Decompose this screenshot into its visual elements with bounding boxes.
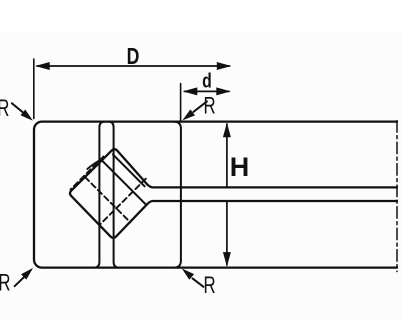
- roller body line (second solid chord): [113, 154, 145, 186]
- D dimension line: [37, 65, 230, 67]
- R1 arrowhead: [21, 110, 33, 121]
- split line v2: [108, 122, 119, 268]
- svg-text:d: d: [202, 69, 212, 93]
- d dim arrow left: [183, 87, 198, 95]
- svg-text:H: H: [230, 152, 250, 182]
- roller back-face curl: [87, 158, 103, 169]
- split line v1: [94, 122, 105, 268]
- main section outline: [34, 122, 397, 268]
- centerline (axis): [396, 121, 398, 272]
- split line v3: [174, 122, 181, 268]
- R4 arrowhead: [182, 269, 194, 280]
- svg-text:R: R: [204, 272, 216, 299]
- roller end-face edge (solid chord): [102, 160, 146, 205]
- svg-text:R: R: [0, 95, 9, 122]
- hidden roller diagonal (dashed): [85, 177, 130, 222]
- d extension line: [180, 84, 182, 121]
- R4 leader: [193, 278, 204, 286]
- roller and raceway groove outline: [70, 149, 397, 238]
- R3 leader: [15, 277, 25, 287]
- hidden roller diagonal 2 (dashed): [100, 179, 146, 225]
- H dimension line lower: [226, 202, 228, 265]
- R2 arrowhead: [182, 109, 195, 120]
- hidden roller edge (dashed, along upper-left): [71, 157, 104, 190]
- R1 leader: [12, 103, 24, 113]
- D extension line: [33, 59, 35, 119]
- D dim arrow left: [35, 62, 50, 70]
- svg-text:R: R: [203, 93, 215, 120]
- H arrow up: [223, 123, 231, 138]
- H dimension line upper: [226, 124, 228, 186]
- H arrow down: [223, 252, 231, 267]
- d dimension line: [185, 90, 230, 92]
- svg-text:D: D: [127, 44, 140, 70]
- d dim arrow right: [216, 87, 231, 95]
- D dim arrow right: [217, 62, 232, 70]
- R3 arrowhead: [21, 268, 33, 280]
- svg-text:R: R: [0, 270, 10, 297]
- R2 leader: [194, 101, 207, 111]
